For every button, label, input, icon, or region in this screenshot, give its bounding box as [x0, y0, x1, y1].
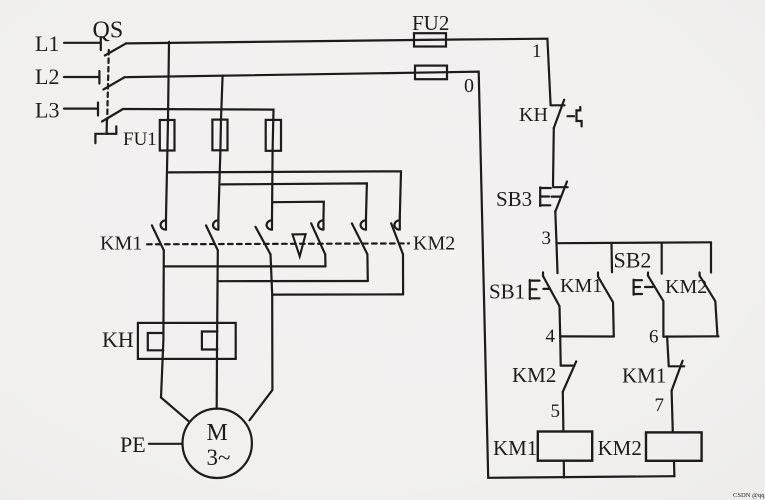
svg-text:QS: QS	[93, 18, 124, 44]
svg-text:KH: KH	[102, 327, 134, 352]
svg-text:KH: KH	[519, 104, 548, 126]
svg-text:4: 4	[546, 326, 556, 347]
svg-text:SB2: SB2	[614, 248, 652, 273]
svg-text:KM2: KM2	[512, 363, 556, 387]
svg-text:KM2: KM2	[413, 233, 455, 255]
svg-text:KM2: KM2	[665, 276, 707, 298]
svg-text:SB3: SB3	[496, 187, 532, 211]
svg-text:L3: L3	[35, 98, 59, 123]
svg-text:FU2: FU2	[412, 11, 449, 35]
svg-text:5: 5	[551, 401, 561, 422]
svg-text:6: 6	[649, 327, 659, 348]
svg-text:KM1: KM1	[560, 275, 602, 297]
svg-text:KM1: KM1	[100, 233, 142, 255]
svg-text:L1: L1	[35, 31, 59, 56]
svg-text:3~: 3~	[207, 445, 231, 470]
svg-text:SB1: SB1	[489, 280, 525, 304]
svg-text:FU1: FU1	[123, 129, 157, 150]
svg-text:0: 0	[464, 75, 474, 97]
svg-text:1: 1	[532, 41, 542, 62]
svg-text:7: 7	[655, 395, 665, 416]
svg-text:3: 3	[542, 228, 552, 249]
svg-text:CSDN @qq_54: CSDN @qq_54	[733, 492, 765, 499]
svg-text:PE: PE	[120, 432, 146, 457]
svg-text:KM1: KM1	[622, 364, 666, 388]
svg-text:M: M	[207, 420, 228, 446]
svg-text:KM2: KM2	[598, 436, 642, 460]
svg-text:L2: L2	[35, 64, 59, 89]
svg-text:KM1: KM1	[493, 436, 537, 460]
